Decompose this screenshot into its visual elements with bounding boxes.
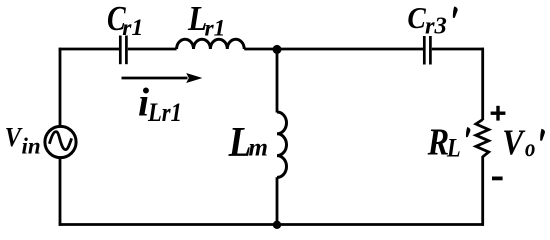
node top junction dot [273,45,282,54]
svg-text:V: V [502,123,525,162]
wire top-left horizontal [59,48,119,51]
label Vo prime [540,129,545,141]
svg-text:in: in [22,133,41,158]
resistor RL zigzag [476,120,489,157]
wire cap3 to top-right corner [432,48,484,51]
label Vo [502,123,535,162]
label Lr1 [187,0,225,41]
capacitor C3 plates [424,36,430,65]
arrow current direction [122,73,203,83]
wire cap1 to inductor [128,48,177,51]
svg-text:L: L [446,134,461,163]
svg-text:R: R [427,121,449,163]
svg-text:o: o [525,134,535,161]
svg-text:r3: r3 [425,13,447,40]
svg-text:r1: r1 [122,15,143,41]
label Lm [228,119,268,165]
source Vin circle [45,126,76,157]
label Cr3 prime [453,6,458,18]
label Cr1 [107,0,143,41]
capacitor C1 plates [120,36,126,65]
wire right vertical upper [481,48,484,120]
wire left vertical lower [59,157,62,225]
label Cr3 [407,1,446,39]
wire bottom horizontal [59,223,484,226]
wire middle vertical upper [276,49,279,113]
label iLr1 [138,80,182,128]
label RL prime [466,127,470,137]
wire left vertical upper [59,48,62,127]
svg-text:Lr1: Lr1 [147,99,182,128]
svg-text:r1: r1 [205,15,226,41]
wire middle vertical lower [276,177,279,224]
node bottom junction dot [273,221,281,229]
plus sign [491,106,506,121]
wire right vertical lower [481,156,484,226]
wire inductor to cap3 [244,48,423,51]
inductor Lm [277,112,287,177]
label RL [427,121,461,163]
svg-text:m: m [249,135,268,162]
minus sign [492,176,503,180]
label Vin [5,122,41,158]
svg-text:V: V [5,122,23,152]
svg-text:C: C [407,1,426,35]
source sine wave [49,132,71,150]
inductor L1 [177,39,245,49]
